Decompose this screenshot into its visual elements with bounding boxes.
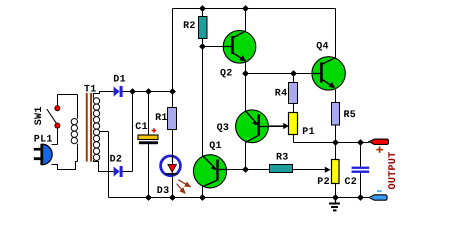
- svg-text:R1: R1: [155, 113, 168, 124]
- svg-text:T1: T1: [84, 85, 97, 96]
- svg-text:P1: P1: [302, 127, 315, 138]
- svg-text:C2: C2: [345, 177, 358, 188]
- svg-text:SW1: SW1: [34, 106, 45, 125]
- svg-text:R5: R5: [344, 110, 357, 121]
- svg-text:R2: R2: [183, 21, 196, 32]
- svg-text:R3: R3: [276, 153, 289, 164]
- svg-text:Q1: Q1: [209, 141, 222, 152]
- svg-text:P2: P2: [317, 177, 330, 188]
- svg-text:R4: R4: [275, 89, 288, 100]
- svg-text:Q2: Q2: [220, 68, 233, 79]
- svg-text:D2: D2: [110, 154, 123, 165]
- svg-text:Q3: Q3: [217, 123, 230, 134]
- svg-text:D1: D1: [113, 74, 126, 85]
- svg-text:Q4: Q4: [316, 42, 329, 53]
- svg-text:C1: C1: [135, 122, 148, 133]
- svg-text:D3: D3: [157, 186, 170, 197]
- svg-text:OUTPUT: OUTPUT: [388, 152, 399, 190]
- svg-text:PL1: PL1: [34, 134, 53, 145]
